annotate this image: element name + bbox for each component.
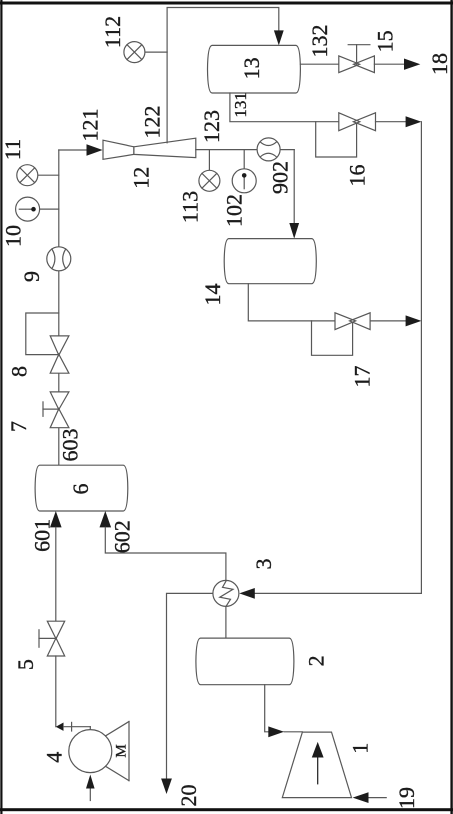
arrow inside compressor 1 <box>317 758 319 784</box>
svg-text:11: 11 <box>0 139 25 160</box>
svg-text:17: 17 <box>350 366 375 388</box>
svg-text:112: 112 <box>100 16 125 48</box>
valve 17 <box>335 313 370 330</box>
svg-text:16: 16 <box>345 165 370 187</box>
valve 8 bypass box <box>26 313 59 355</box>
arrow pump discharge <box>56 723 64 731</box>
valve 15 <box>339 56 375 73</box>
frame border right <box>450 0 452 814</box>
heat exchanger 3 <box>213 580 239 606</box>
ejector 12 diffuser <box>134 138 196 157</box>
arrow into exchanger 3 <box>239 588 255 599</box>
vessel 13 <box>208 45 301 93</box>
valve 16 <box>339 113 376 131</box>
svg-text:5: 5 <box>13 659 38 670</box>
instrument circle 113 <box>199 170 220 191</box>
instrument circle 112 stub <box>145 51 167 53</box>
arrow 602 into vessel 6 <box>100 511 112 527</box>
svg-text:123: 123 <box>199 110 224 143</box>
gauge 10 <box>16 197 40 221</box>
svg-text:102: 102 <box>222 194 247 227</box>
vessel 6 <box>35 465 128 511</box>
pump 4 <box>69 730 112 773</box>
valve 8 <box>50 336 70 373</box>
pump 4 motor fan <box>106 722 130 736</box>
valve 16 bypass box <box>316 122 357 157</box>
gauge 102 stub <box>243 150 245 169</box>
vessel 14 <box>224 239 316 284</box>
wire into compressor 1 top corner <box>284 731 302 733</box>
arrow inlet 19 <box>353 792 369 803</box>
svg-text:10: 10 <box>1 225 26 247</box>
svg-text:113: 113 <box>178 191 203 223</box>
svg-text:6: 6 <box>68 484 93 495</box>
svg-text:M: M <box>114 744 130 757</box>
instrument circle 113 stub <box>208 150 210 171</box>
svg-text:14: 14 <box>200 284 225 306</box>
arrow outlet 20 <box>161 779 172 795</box>
wire 123 line down to vessel 14 <box>293 150 295 223</box>
arrow into vessel 13 <box>274 30 284 45</box>
arrow into compressor 1 <box>268 726 284 737</box>
svg-text:131: 131 <box>231 92 250 118</box>
flow meter 9 <box>47 247 71 271</box>
wire corner to ejector inlet 121 <box>59 149 90 151</box>
compressor 1 <box>282 732 351 798</box>
wire valve 15 to outlet 18 <box>374 63 404 65</box>
svg-text:602: 602 <box>110 520 135 553</box>
wire 601 line <box>55 527 57 621</box>
gauge 10 stub <box>40 208 59 210</box>
svg-text:3: 3 <box>251 559 276 570</box>
wire pump discharge line <box>64 726 91 728</box>
svg-text:9: 9 <box>19 271 44 282</box>
wire inlet 19 <box>368 797 386 799</box>
pump 4 inlet wire <box>89 789 91 801</box>
wire vessel 14 to valve 17 <box>248 284 335 321</box>
svg-text:13: 13 <box>239 57 264 79</box>
svg-text:18: 18 <box>427 53 452 75</box>
wire main riser line 6-7-8-9-10-11 <box>58 150 60 465</box>
svg-text:2: 2 <box>303 655 328 666</box>
valve 7 stem <box>43 408 59 410</box>
frame border left <box>0 0 2 814</box>
wire exchanger 3 to vessel 2 <box>225 606 227 638</box>
arrow valve 17 outlet <box>406 315 422 326</box>
instrument circle 112 <box>124 42 145 63</box>
svg-text:19: 19 <box>394 787 419 809</box>
svg-text:121: 121 <box>78 109 103 142</box>
svg-text:601: 601 <box>30 519 55 552</box>
wire exchanger 3 to outlet 20 <box>167 593 213 779</box>
frame border top <box>0 2 453 5</box>
flow meter 902 <box>257 138 280 161</box>
wire valve 5 to pump junction <box>55 656 57 727</box>
wire valve 16 to right line <box>376 121 408 123</box>
arrow valve 16 outlet <box>406 116 422 127</box>
arrow into vessel 14 <box>289 223 299 239</box>
wire vessel 13 to valve 15 <box>300 63 338 65</box>
ejector 12 converging nozzle <box>103 140 134 159</box>
wire valve 17 to right line <box>370 320 407 322</box>
svg-text:132: 132 <box>307 25 332 58</box>
svg-text:8: 8 <box>7 366 32 377</box>
tick on pump discharge <box>71 722 73 731</box>
wire suction line 122 from ejector top <box>167 8 279 143</box>
svg-text:12: 12 <box>128 167 153 189</box>
valve 5 stem <box>39 637 56 639</box>
valve 15 stem <box>356 45 358 64</box>
svg-text:4: 4 <box>42 752 67 763</box>
wire right vertical return line <box>254 122 421 594</box>
svg-text:122: 122 <box>139 106 164 139</box>
wire vessel 2 to compressor 1 <box>265 685 269 732</box>
valve 17 bypass box <box>312 321 353 355</box>
svg-text:1: 1 <box>348 743 373 754</box>
arrow outlet 18 <box>404 59 420 70</box>
svg-text:20: 20 <box>176 785 201 807</box>
frame border bottom <box>0 808 453 811</box>
arrow 601 into vessel 6 <box>50 511 62 527</box>
wire 131 from vessel 13 bottom <box>230 93 339 122</box>
svg-text:902: 902 <box>268 161 293 194</box>
vessel 2 <box>196 638 294 685</box>
arrow pump inlet <box>86 775 95 789</box>
valve 5 <box>47 621 66 656</box>
arrow into ejector inlet 121 <box>87 144 103 156</box>
svg-text:15: 15 <box>373 30 398 52</box>
valve 7 <box>50 392 70 428</box>
wire ejector outlet 123 line <box>196 149 294 151</box>
instrument circle 11 stub <box>38 174 59 176</box>
instrument circle 11 <box>17 165 38 186</box>
svg-text:603: 603 <box>58 429 83 462</box>
wire 602 line <box>105 527 226 580</box>
gauge 102 <box>232 169 256 193</box>
svg-text:7: 7 <box>6 421 31 432</box>
